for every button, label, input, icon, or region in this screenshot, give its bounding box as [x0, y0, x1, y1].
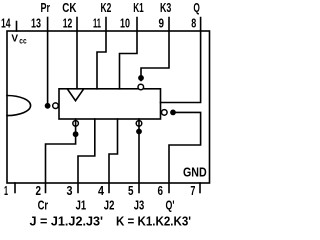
- svg-text:8: 8: [191, 16, 196, 31]
- svg-text:K1: K1: [133, 1, 144, 15]
- svg-text:V: V: [11, 34, 18, 45]
- pin 6 wire (Q'): [169, 112, 201, 192]
- svg-text:K = K1.K2.K3': K = K1.K2.K3': [116, 215, 191, 229]
- preset inversion bubble: [53, 103, 59, 109]
- clock edge indicator V: [68, 90, 83, 101]
- pin 10 wire (K1): [120, 18, 138, 89]
- pin 8 wire (Q): [161, 18, 201, 103]
- svg-text:4: 4: [98, 183, 105, 198]
- svg-text:J = J1.J2.J3': J = J1.J2.J3': [30, 215, 104, 229]
- svg-text:Pr: Pr: [41, 1, 51, 15]
- flip-flop body: [59, 89, 161, 119]
- pin 14 tick: [16, 22, 18, 32]
- svg-text:10: 10: [120, 16, 130, 31]
- pin 12 wire (CK): [76, 18, 78, 89]
- pin 7 tick: [199, 183, 201, 193]
- svg-text:GND: GND: [183, 165, 207, 180]
- svg-text:CK: CK: [62, 1, 76, 15]
- pin 13 wire (Pr): [47, 18, 49, 106]
- Q' inversion bubble: [162, 110, 168, 116]
- IC package outline U1: [7, 31, 210, 183]
- junction dot at Q': [170, 110, 176, 116]
- pin 9 wire (K3): [141, 18, 169, 81]
- svg-text:12: 12: [63, 16, 73, 31]
- pin 11 wire (K2): [97, 18, 106, 89]
- svg-text:J3: J3: [134, 198, 145, 213]
- junction dot at clear: [73, 131, 79, 137]
- junction dot at K3: [138, 75, 144, 81]
- package notch: [7, 96, 31, 116]
- svg-text:3: 3: [67, 183, 73, 198]
- svg-text:14: 14: [1, 16, 11, 31]
- svg-text:J1: J1: [76, 198, 87, 213]
- junction dot at preset: [45, 103, 51, 109]
- svg-text:K2: K2: [101, 1, 112, 15]
- clear inversion bubble: [73, 121, 79, 127]
- svg-text:cc: cc: [19, 35, 26, 45]
- pin 3 wire (J1): [78, 119, 95, 193]
- svg-text:K3: K3: [160, 1, 171, 15]
- svg-text:5: 5: [128, 183, 134, 198]
- pin 4 wire (J2): [109, 119, 118, 193]
- pin 5 wire (J3): [138, 119, 140, 193]
- svg-text:7: 7: [190, 183, 195, 198]
- svg-text:Cr: Cr: [38, 198, 49, 213]
- pin 2 wire (Cr): [46, 119, 76, 193]
- K3 inversion bubble: [138, 84, 144, 90]
- svg-text:1: 1: [4, 183, 8, 198]
- J3 inversion bubble: [136, 121, 142, 127]
- svg-text:Q': Q': [166, 198, 175, 213]
- svg-text:11: 11: [93, 16, 101, 31]
- pin 1 tick: [14, 183, 16, 193]
- svg-text:2: 2: [36, 183, 42, 198]
- svg-text:Q: Q: [193, 1, 200, 15]
- svg-text:13: 13: [31, 16, 41, 31]
- svg-text:J2: J2: [104, 198, 115, 213]
- svg-text:6: 6: [158, 183, 164, 198]
- junction dot at J3: [136, 129, 142, 135]
- svg-text:9: 9: [159, 16, 165, 31]
